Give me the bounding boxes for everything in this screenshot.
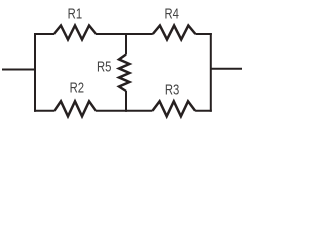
svg-text:R5: R5: [97, 58, 111, 75]
svg-text:R3: R3: [165, 81, 179, 98]
svg-text:R1: R1: [68, 5, 82, 22]
svg-text:R2: R2: [70, 79, 84, 96]
svg-text:R4: R4: [164, 5, 178, 22]
